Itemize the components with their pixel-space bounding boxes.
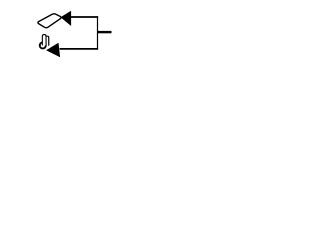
- wire (bottom horizontal segment): [60, 48, 99, 50]
- thermometer: side hook (capillary down right side): [46, 36, 49, 45]
- arrowhead (signal arrow into thermometer): [46, 43, 60, 58]
- node (connection port stub): [97, 31, 112, 33]
- thermometer: stem tube: [42, 35, 46, 46]
- actuator bar symbol (slanted rounded parallelogram): [38, 14, 61, 28]
- thermometer: bulb: [40, 42, 46, 48]
- wire (vertical bus segment): [97, 16, 99, 49]
- wire (top horizontal segment): [70, 16, 99, 18]
- arrowhead (signal arrow into actuator bar): [61, 11, 72, 26]
